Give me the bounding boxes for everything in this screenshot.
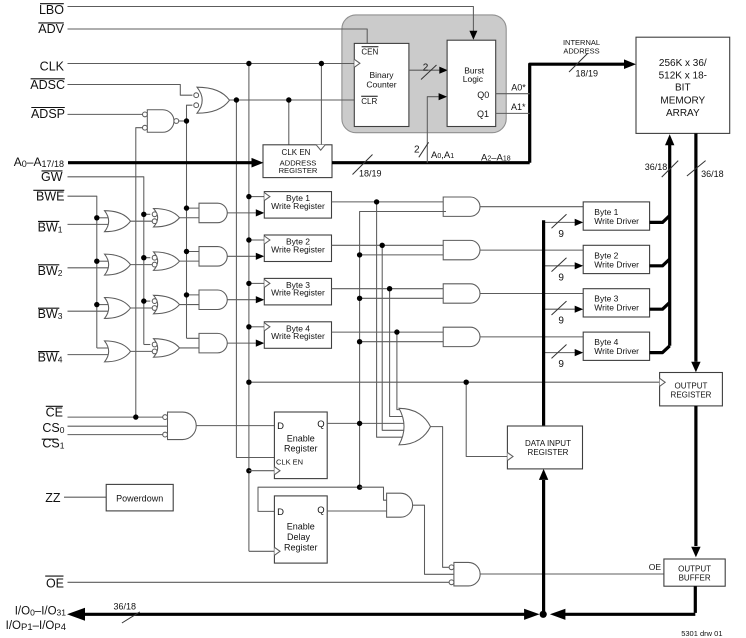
wire G4B out (180, 347, 205, 349)
junction dot riser byte 1 (374, 199, 379, 204)
svg-text:LBO: LBO (39, 3, 64, 17)
label OE (45, 576, 64, 590)
label A1* (511, 102, 526, 112)
label CS1 (42, 437, 65, 451)
register "Byte 3 Write Register" (264, 278, 331, 305)
svg-text:BW1: BW1 (38, 220, 63, 234)
register "Enable Delay Register" (274, 496, 327, 563)
label A0-A17/18 (14, 155, 64, 169)
junction dots enable vertical (357, 252, 362, 344)
register "OUTPUT REGISTER" (660, 373, 723, 406)
svg-text:Write Driver: Write Driver (594, 346, 639, 356)
wire clock tap to data input register (466, 382, 507, 456)
junction dots write-pulse vertical (184, 118, 189, 297)
wire CLK vertical distribution (248, 64, 250, 552)
wire BWE tap row 3 (97, 304, 112, 306)
svg-text:Write Register: Write Register (271, 331, 325, 341)
wire register 1 Q to AND (332, 201, 447, 203)
wire CLK (68, 63, 355, 65)
wire enable vertical (360, 212, 446, 488)
register "CLK EN ADDRESS REGISTER" (263, 145, 332, 178)
junction dots load line (234, 97, 292, 102)
wire Q0 to internal bus (496, 93, 530, 95)
junction dot riser byte 3 (387, 286, 392, 291)
svg-text:18/19: 18/19 (359, 169, 382, 179)
junction dots GW vertical (141, 212, 146, 304)
svg-text:I/O0–I/O31: I/O0–I/O31 (15, 606, 67, 618)
svg-text:36/18: 36/18 (645, 162, 668, 172)
wire BW2 input (68, 267, 113, 269)
or-gate G1B (byte write, neg inputs) (152, 209, 179, 228)
svg-text:A0–A17/18: A0–A17/18 (14, 155, 64, 169)
wire write-pulse vertical (U2 out) (186, 121, 188, 338)
svg-text:Q: Q (317, 505, 324, 516)
svg-text:ADDRESS: ADDRESS (563, 47, 599, 56)
wire G2A out (131, 264, 153, 266)
svg-text:BW3: BW3 (38, 307, 63, 321)
and-gate G1D (443, 197, 480, 216)
slash 9 driver 3 (552, 301, 567, 327)
wire feedback to delay register D (258, 487, 360, 511)
slash 36/18 right memory bus (687, 161, 724, 179)
svg-text:I/OP1–I/OP4: I/OP1–I/OP4 (6, 620, 66, 633)
or U4 (write status, 5-input) (399, 408, 431, 445)
bus A2-A18 from address register (332, 161, 530, 164)
label A0* (511, 83, 526, 93)
svg-text:REGISTER: REGISTER (279, 166, 318, 175)
label OE at output buffer (649, 562, 662, 572)
burst control group box (shaded) (342, 15, 506, 133)
label BW2 (38, 264, 63, 278)
label BWE (33, 190, 64, 204)
slash 36/18 on I/O bus (114, 602, 140, 624)
wire riser byte 2 to OR U4 (382, 245, 408, 430)
svg-text:Write Driver: Write Driver (594, 303, 639, 313)
wire U3 output (address load) (230, 99, 355, 101)
svg-text:DATA INPUT: DATA INPUT (525, 439, 571, 448)
block "OUTPUT BUFFER" (664, 559, 725, 586)
and-gate G3D (443, 284, 480, 303)
wire G1B out (180, 217, 205, 219)
bus output buffer down (694, 586, 697, 613)
wire LBO to Burst Logic (68, 7, 474, 32)
svg-text:9: 9 (558, 272, 564, 283)
svg-text:OUTPUT: OUTPUT (675, 382, 708, 391)
svg-text:REGISTER: REGISTER (528, 448, 569, 457)
wire enable tap row 4 (360, 341, 446, 343)
wire ADV to Binary Counter CEN (68, 29, 368, 43)
bus I/O left segment (67, 608, 540, 621)
svg-text:BUFFER: BUFFER (679, 574, 711, 583)
bus write data up into memory (665, 134, 674, 346)
svg-text:CS0: CS0 (42, 421, 64, 435)
block "Byte 4 Write Driver" (583, 332, 649, 360)
wire riser byte 4 to OR U4 (397, 332, 408, 410)
or U4 output to U7 (431, 427, 449, 568)
wire CLK tap register 2 (249, 239, 264, 241)
svg-text:ZZ: ZZ (45, 491, 61, 505)
svg-text:Enable: Enable (287, 433, 315, 443)
bus driver 4 output (650, 346, 670, 353)
svg-text:A0,A1: A0,A1 (431, 150, 454, 161)
block "Powerdown" (106, 484, 173, 511)
and-gate G1C (199, 203, 227, 223)
or-gate G3B (byte write, neg inputs) (152, 295, 179, 314)
register "Burst Logic" (447, 40, 496, 126)
svg-text:512K x 18-: 512K x 18- (659, 71, 707, 82)
bus driver 2 output (650, 259, 670, 266)
wire data tap to driver 3 (544, 306, 584, 313)
wire G2C out to register D (227, 253, 264, 260)
wire GW vertical (68, 177, 144, 345)
svg-text:BW4: BW4 (38, 351, 63, 365)
svg-text:REGISTER: REGISTER (671, 390, 712, 399)
bus data input register feed (539, 469, 548, 614)
svg-text:BIT: BIT (675, 83, 691, 94)
svg-text:Write Register: Write Register (271, 288, 325, 298)
and U6 (enable,delay) (387, 493, 413, 517)
and U7 (output enable) (449, 562, 480, 586)
label A2-A18 (481, 152, 511, 163)
svg-text:Logic: Logic (463, 74, 484, 84)
nand U5 (CE,CS0,CS1) (163, 412, 197, 440)
wire BW1 input (68, 223, 113, 225)
label LBO (39, 3, 64, 17)
svg-text:36/18: 36/18 (701, 169, 724, 179)
junction dot clock line start (246, 380, 251, 385)
svg-text:9: 9 (558, 359, 564, 370)
svg-text:Write Driver: Write Driver (594, 259, 639, 269)
label GW (41, 170, 63, 184)
slash 36/18 left memory bus (645, 161, 678, 178)
svg-text:BWE: BWE (36, 190, 64, 204)
svg-text:CLK: CLK (40, 60, 65, 74)
wire BW4 input (68, 354, 113, 356)
wire CE (68, 416, 163, 418)
svg-text:ADSP: ADSP (31, 107, 65, 121)
nand U2 (ADSP,CE) (143, 110, 179, 133)
wire CLK to address register clock (320, 64, 322, 145)
wire write-pulse tap row 2 (187, 251, 205, 253)
label BW1 (38, 220, 63, 234)
wire enable tap row 3 (360, 297, 446, 299)
bus driver 3 output (650, 302, 670, 309)
and-gate G2C (199, 247, 227, 267)
svg-text:D: D (277, 507, 284, 518)
slash 18/19 on address bus (353, 155, 382, 179)
wire enable tap row 2 (360, 254, 446, 256)
svg-text:9: 9 (558, 229, 564, 240)
bus memory to output register (691, 133, 700, 372)
junction dot riser byte 4 (394, 329, 399, 334)
wire G2D out to write driver (480, 249, 583, 251)
or-gate G4A (BWE+BW4) (105, 341, 131, 362)
svg-text:ADV: ADV (38, 22, 64, 36)
svg-text:D: D (277, 421, 284, 432)
wire write-pulse tap row 1 (187, 207, 205, 209)
label I/O0-I/O31 (15, 606, 67, 618)
wire G1C out to register D (227, 209, 264, 216)
wire load vertical to enable register CLK EN (236, 100, 274, 458)
block "Byte 1 Write Driver" (583, 202, 649, 230)
slash 9 driver 1 (552, 214, 567, 240)
bus internal address vertical+horizontal (530, 59, 636, 162)
wire U5 out to enable register D (196, 425, 274, 427)
wire data tap to driver 2 (544, 262, 584, 269)
register "Byte 4 Write Register" (264, 322, 331, 349)
junction dots BWE vertical (94, 215, 99, 307)
or U3 (ADSC,ADSP) negative-input OR (194, 87, 230, 113)
and-gate G4C (199, 333, 227, 353)
wire U6 out to U7 (413, 505, 454, 574)
svg-text:A2–A18: A2–A18 (481, 152, 511, 163)
label A0,A1 (431, 150, 454, 161)
wire G3B out (180, 304, 205, 306)
svg-text:Counter: Counter (366, 79, 396, 89)
wire enable Q line to OR U4 (327, 422, 408, 424)
wire ZZ (64, 496, 106, 498)
wire CLK tap register 1 (249, 196, 264, 198)
svg-text:256K x 36/: 256K x 36/ (659, 58, 707, 69)
svg-text:GW: GW (41, 170, 63, 184)
slash 2 counter-burst (421, 62, 437, 79)
and-gate G4D (443, 327, 480, 346)
svg-text:OE: OE (46, 576, 64, 590)
svg-text:2: 2 (414, 145, 420, 156)
svg-text:CLR: CLR (361, 97, 377, 106)
bus output register to output buffer (691, 406, 700, 557)
bus driver 1 output (650, 216, 670, 223)
or-gate G2B (byte write, neg inputs) (152, 252, 179, 271)
svg-text:Q0: Q0 (477, 90, 489, 100)
slash 9 driver 4 (552, 345, 567, 371)
slash 9 driver 2 (552, 258, 567, 284)
register "Byte 2 Write Register" (264, 235, 331, 262)
wire CLK tap register 3 (249, 282, 264, 284)
wire G1A out (131, 220, 153, 222)
svg-text:Delay: Delay (287, 532, 311, 542)
wire riser byte 3 to OR U4 (390, 289, 408, 417)
junction node I/O (540, 611, 547, 618)
svg-text:Register: Register (284, 542, 318, 552)
wire GW tap row 3 (144, 300, 151, 302)
wire register 4 Q to AND (332, 331, 447, 333)
wire G3A out (131, 307, 153, 309)
wire U2 output to node (179, 120, 187, 122)
wire G3C out to register D (227, 296, 264, 303)
label CS0 (42, 421, 64, 435)
wire register 2 Q to AND (332, 244, 447, 246)
bus A0-A17/18 into address register (68, 158, 264, 168)
wire BWE tap row 2 (97, 260, 112, 262)
wire data tap to driver 1 (544, 219, 584, 226)
block "Byte 3 Write Driver" (583, 289, 649, 317)
wire delay register clock (249, 550, 275, 552)
slash+label internal address 18/19 (569, 54, 598, 79)
wire GW tap row 4 (144, 344, 151, 346)
wire GW tap row 2 (144, 257, 151, 259)
junction dots CLK vertical at registers (246, 194, 251, 330)
svg-text:Write Register: Write Register (271, 244, 325, 254)
wire enable tap row 1 (360, 211, 446, 213)
wire counter to burst (2) (409, 67, 448, 74)
wire write-pulse tap row 4 (187, 337, 205, 339)
wire data tap to driver 4 (544, 349, 584, 356)
svg-text:CEN: CEN (361, 48, 378, 57)
svg-text:36/18: 36/18 (114, 602, 137, 612)
svg-text:A1*: A1* (511, 102, 526, 112)
svg-text:Write Register: Write Register (271, 201, 325, 211)
svg-text:OUTPUT: OUTPUT (678, 565, 711, 574)
wire enable register clock (249, 470, 275, 472)
junction dots CLK line top (246, 61, 324, 66)
wire clock line to output/data registers (249, 381, 660, 383)
svg-text:CLK EN: CLK EN (276, 457, 303, 466)
register "Enable Register" (274, 412, 327, 479)
wire G2B out (180, 260, 205, 262)
block "256K x 36/512K x 18-BIT MEMORY ARRAY" (636, 37, 730, 133)
label BW4 (38, 351, 63, 365)
and-gate G3C (199, 290, 227, 310)
wire CLK tap register 4 (249, 326, 264, 328)
register "DATA INPUT REGISTER" (507, 426, 582, 469)
svg-text:BW2: BW2 (38, 264, 63, 278)
wire BWE tap row 1 (97, 217, 112, 219)
label CE (46, 405, 63, 419)
bus data input register riser (542, 220, 545, 426)
junction dot enable register clock (246, 468, 251, 473)
svg-text:OE: OE (649, 562, 662, 572)
arrow LBO into burst logic (469, 31, 477, 40)
label CLK (40, 60, 65, 74)
svg-text:2: 2 (423, 62, 429, 73)
label ADSP (31, 107, 65, 121)
wire G4D out to write driver (480, 336, 583, 338)
wire ADSC (68, 85, 193, 96)
label INTERNAL ADDRESS (563, 38, 600, 56)
or-gate G2A (BWE+BW2) (105, 254, 131, 275)
wire ADSP (68, 113, 143, 115)
svg-text:Enable: Enable (287, 522, 315, 532)
wire Q1 to internal bus (496, 112, 530, 114)
wire write-pulse tap row 3 (187, 294, 205, 296)
svg-text:A0*: A0* (511, 83, 526, 93)
wire node U2 up to OR U3 input (187, 105, 193, 121)
label I/OP1-I/OP4 (6, 620, 66, 633)
svg-text:Powerdown: Powerdown (116, 494, 163, 504)
wire G4A out (131, 350, 153, 352)
wire riser byte 1 to OR U4 (377, 202, 408, 437)
label BW3 (38, 307, 63, 321)
svg-text:CE: CE (46, 405, 63, 419)
wire GW tap row 1 (144, 213, 151, 215)
svg-text:ARRAY: ARRAY (666, 108, 700, 119)
wire register 3 Q to AND (332, 288, 447, 290)
or-gate G3A (BWE+BW3) (105, 298, 131, 319)
slash 2 on A0,A1 tap (414, 142, 429, 157)
wire delay Q to AND U6 (327, 510, 389, 512)
junction dot feedback (357, 485, 362, 490)
wire CS0 (68, 425, 168, 427)
wire CS1 (68, 434, 163, 436)
wire G3D out to write driver (480, 293, 583, 295)
wire A0,A1 tap to burst logic (427, 93, 447, 163)
wire BWE vertical (68, 196, 97, 348)
svg-text:ADSC: ADSC (30, 78, 65, 92)
junction dot enable Q (357, 421, 362, 426)
label ADSC (30, 78, 65, 92)
svg-text:Register: Register (284, 444, 318, 454)
block "Byte 2 Write Driver" (583, 245, 649, 273)
wire G1D out to write driver (480, 206, 583, 208)
svg-text:Q1: Q1 (477, 109, 489, 119)
wire OE (68, 581, 450, 583)
label 5301 drw 01 (681, 629, 722, 638)
wire load to address register CLK EN (288, 100, 290, 145)
register "Byte 1 Write Register" (264, 192, 331, 219)
wire BWE tap row 4 (97, 347, 112, 349)
svg-text:5301 drw 01: 5301 drw 01 (681, 629, 722, 638)
svg-text:Write Driver: Write Driver (594, 216, 639, 226)
wire BW3 input (68, 310, 113, 312)
svg-text:9: 9 (558, 316, 564, 327)
svg-text:MEMORY: MEMORY (660, 95, 705, 106)
junction dot riser byte 2 (380, 243, 385, 248)
junction dot data clock tap (464, 380, 469, 385)
svg-text:CLK EN: CLK EN (282, 148, 311, 157)
wire CE to NAND U2 input (136, 128, 143, 417)
and-gate G2D (443, 240, 480, 259)
label ZZ (45, 491, 61, 505)
label ADV (38, 22, 64, 36)
or-gate G4B (byte write, neg inputs) (152, 339, 179, 358)
svg-text:Q: Q (317, 419, 324, 430)
bus I/O right segment (550, 609, 695, 620)
or-gate G1A (BWE+BW1) (105, 211, 131, 232)
register "Binary Counter" (354, 43, 409, 126)
wire feedback to AND U6 (360, 487, 389, 500)
wire U7 out to output buffer (480, 573, 664, 575)
wire G4C out to register D (227, 340, 264, 347)
junction dot CE (133, 414, 138, 419)
svg-text:18/19: 18/19 (576, 69, 599, 79)
